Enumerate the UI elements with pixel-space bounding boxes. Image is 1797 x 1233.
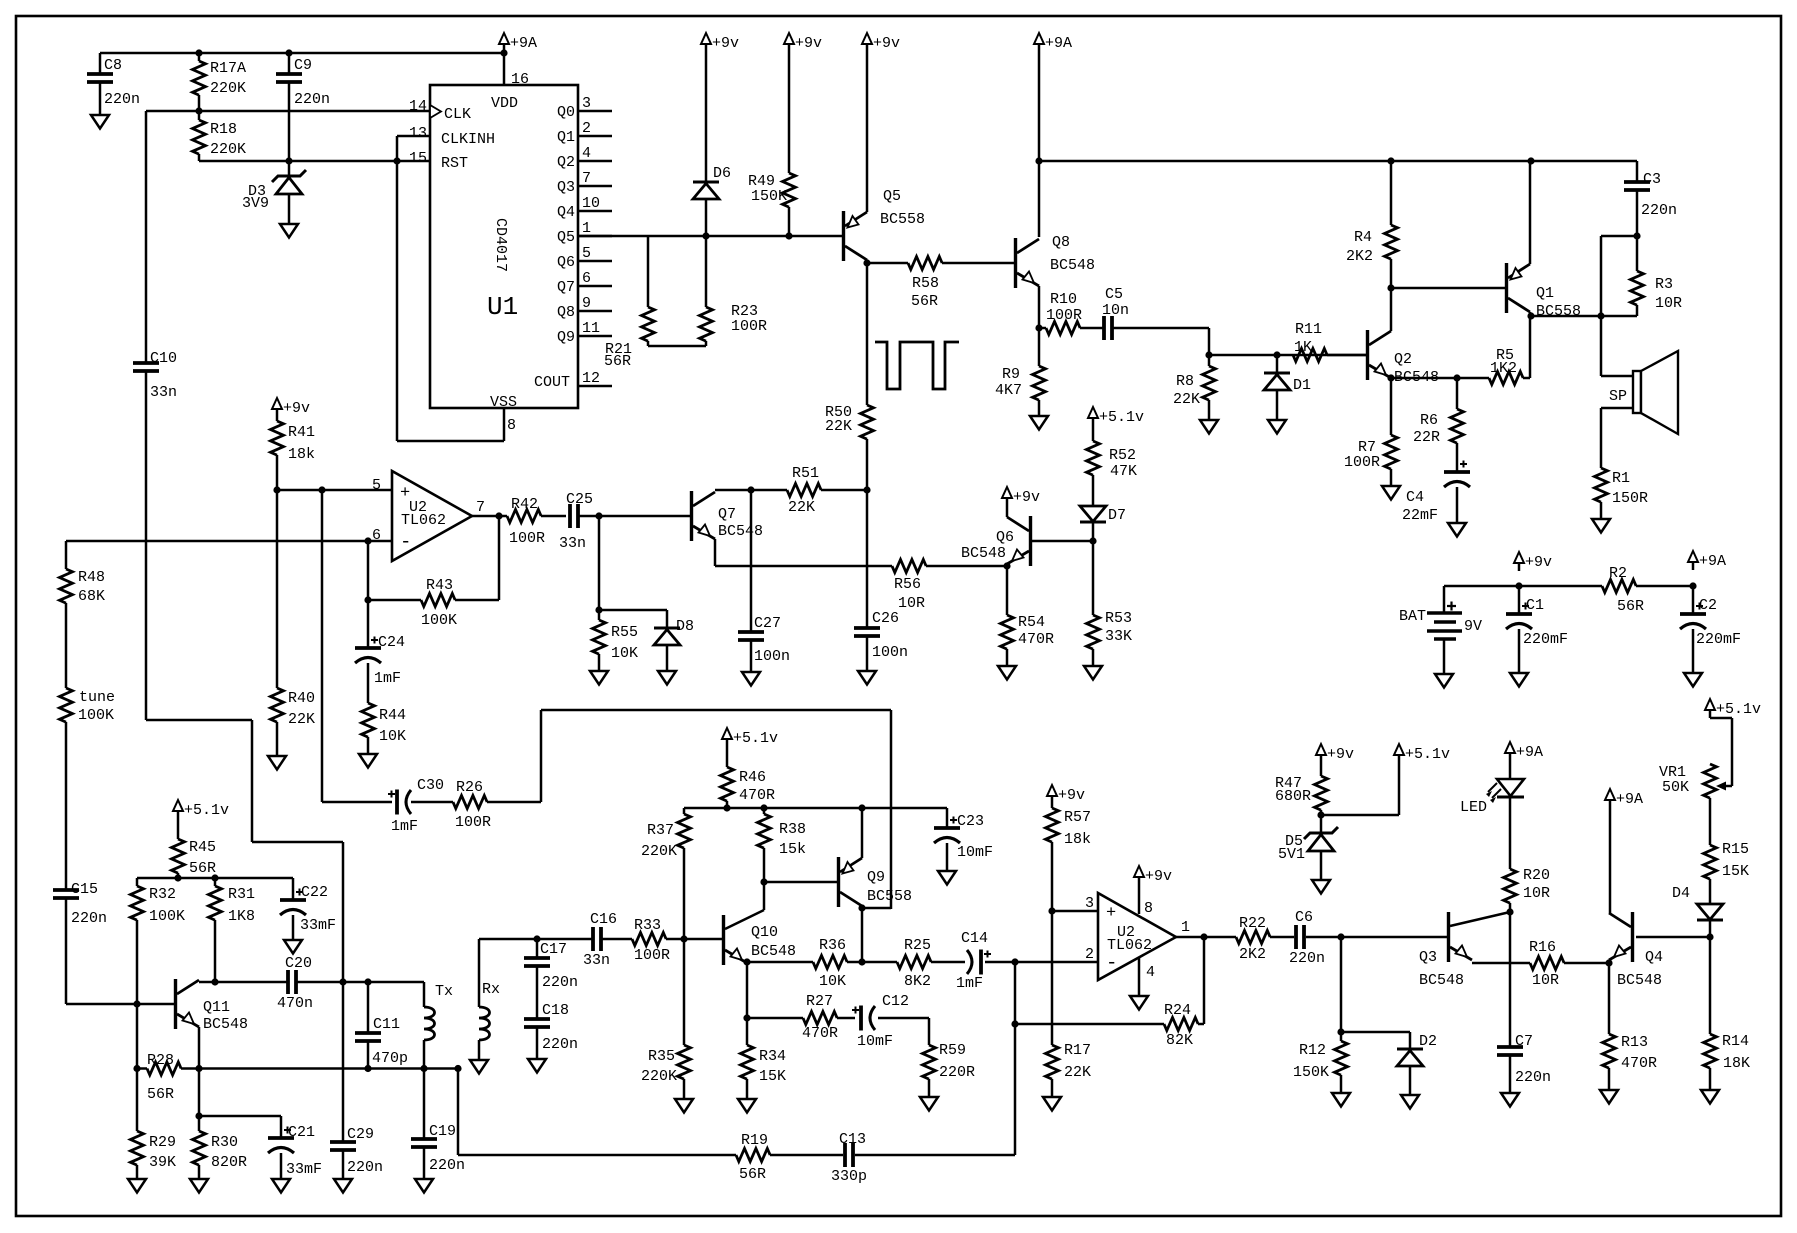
transistor Q10 BC548	[722, 915, 725, 965]
svg-text:R41: R41	[288, 424, 315, 441]
svg-text:22K: 22K	[788, 499, 815, 516]
ground (R12)	[1332, 1093, 1350, 1107]
resistor R15	[1704, 845, 1717, 879]
resistor R50	[866, 263, 869, 405]
capacitor C20	[286, 970, 290, 994]
capacitor C11	[367, 982, 370, 1033]
svg-text:-: -	[1106, 952, 1117, 974]
op-amp U2 second half TL062	[1098, 893, 1176, 980]
svg-text:33n: 33n	[583, 952, 610, 969]
capacitor C8	[99, 53, 102, 74]
svg-text:C14: C14	[961, 930, 988, 947]
svg-text:7: 7	[582, 170, 591, 187]
svg-text:C22: C22	[301, 884, 328, 901]
pin 11 Q9 stub	[578, 335, 612, 338]
wire Q9 base line y=882	[764, 881, 837, 884]
power +9v (C1)	[1514, 552, 1524, 563]
wire Q3 base branch y=1032	[1340, 937, 1343, 1032]
wire op-amp2 output y=937	[1176, 936, 1236, 939]
svg-text:150R: 150R	[1612, 490, 1648, 507]
svg-text:15K: 15K	[759, 1068, 786, 1085]
svg-text:4: 4	[1146, 964, 1155, 981]
wire Q11 base y=1004	[66, 1003, 174, 1006]
speaker SP	[1601, 375, 1633, 378]
capacitor C30 1mF	[395, 790, 399, 815]
svg-text:Q9: Q9	[557, 329, 575, 346]
svg-text:R12: R12	[1299, 1042, 1326, 1059]
svg-text:R3: R3	[1655, 276, 1673, 293]
svg-text:D8: D8	[676, 618, 694, 635]
svg-text:10K: 10K	[379, 728, 406, 745]
svg-text:R43: R43	[426, 577, 453, 594]
power +5.1v (VR1)	[1705, 699, 1715, 710]
resistor R43	[421, 594, 455, 607]
wire Q7 emitter / R56 line y=566	[714, 539, 717, 566]
svg-text:100K: 100K	[421, 612, 457, 629]
diode D8	[666, 610, 669, 628]
power +9v (op-amp pin 8)	[1134, 866, 1144, 877]
svg-text:R38: R38	[779, 821, 806, 838]
svg-text:470R: 470R	[1018, 631, 1054, 648]
ground (R54)	[998, 666, 1016, 680]
svg-text:tune: tune	[79, 689, 115, 706]
power +9A (rail)	[1034, 33, 1044, 44]
wire R27 line y=1018	[747, 1017, 803, 1020]
svg-text:470p: 470p	[372, 1050, 408, 1067]
capacitor C1 220mF	[1518, 586, 1521, 614]
svg-text:R1: R1	[1612, 470, 1630, 487]
resistor R11	[1293, 349, 1327, 362]
resistor R9	[1038, 328, 1041, 366]
wire pin6 line y=541	[66, 540, 392, 543]
svg-text:5V1: 5V1	[1278, 846, 1305, 863]
wire R36 line y=962	[747, 961, 813, 964]
resistor R28	[147, 1062, 181, 1075]
svg-text:Q5: Q5	[557, 229, 575, 246]
ground (C19)	[415, 1179, 433, 1193]
capacitor C17	[536, 939, 539, 958]
svg-text:820R: 820R	[211, 1154, 247, 1171]
wire C21 line y=1116	[199, 1115, 281, 1118]
resistor R51	[787, 484, 821, 497]
svg-text:R30: R30	[211, 1134, 238, 1151]
svg-text:R2: R2	[1609, 565, 1627, 582]
svg-text:C29: C29	[347, 1126, 374, 1143]
svg-text:1mF: 1mF	[956, 975, 983, 992]
svg-text:R13: R13	[1621, 1034, 1648, 1051]
resistor R26	[453, 796, 487, 809]
resistor R29	[131, 1131, 144, 1165]
ground (C8)	[91, 115, 109, 129]
svg-text:C30: C30	[417, 777, 444, 794]
capacitor C12 10mF	[859, 1006, 863, 1031]
resistor R6	[1456, 378, 1459, 409]
wire Q9 collector to loop	[862, 907, 891, 910]
svg-text:Q2: Q2	[557, 154, 575, 171]
wire loop up and across y=710	[540, 710, 543, 802]
svg-text:Q7: Q7	[718, 506, 736, 523]
transistor Q9 BC558	[837, 857, 840, 907]
svg-text:33n: 33n	[150, 384, 177, 401]
capacitor C10	[145, 111, 148, 363]
capacitor C13	[843, 1143, 847, 1167]
svg-text:R54: R54	[1018, 614, 1045, 631]
svg-text:C26: C26	[872, 610, 899, 627]
resistor R32	[136, 878, 139, 886]
svg-text:220n: 220n	[104, 91, 140, 108]
svg-text:22K: 22K	[1064, 1064, 1091, 1081]
wire Q4 base line y=937	[1636, 936, 1710, 939]
svg-text:BC548: BC548	[1419, 972, 1464, 989]
transistor Q7 BC548	[690, 491, 693, 541]
resistor R58	[908, 257, 942, 270]
svg-text:R44: R44	[379, 707, 406, 724]
svg-text:+9v: +9v	[1525, 554, 1552, 571]
svg-text:C1: C1	[1526, 597, 1544, 614]
svg-text:+9A: +9A	[1699, 553, 1726, 570]
resistor R31	[214, 878, 217, 886]
svg-text:100R: 100R	[509, 530, 545, 547]
diode D6	[705, 52, 708, 182]
diode D2	[1397, 1048, 1423, 1051]
svg-text:+9A: +9A	[1045, 35, 1072, 52]
wire Q11 collector line y=982	[199, 981, 288, 984]
svg-text:1mF: 1mF	[374, 670, 401, 687]
svg-text:220n: 220n	[1641, 202, 1677, 219]
svg-text:D2: D2	[1419, 1033, 1437, 1050]
svg-text:Q6: Q6	[996, 529, 1014, 546]
svg-text:6: 6	[372, 527, 381, 544]
svg-text:R20: R20	[1523, 867, 1550, 884]
wire R19/C13 line y=1155	[457, 1069, 460, 1156]
svg-text:R52: R52	[1109, 447, 1136, 464]
svg-text:15: 15	[409, 150, 427, 167]
zener diode D5 5V1	[1320, 815, 1323, 833]
transistor Q1 BC558	[1505, 263, 1508, 313]
svg-text:50K: 50K	[1662, 779, 1689, 796]
resistor R30	[193, 1131, 206, 1165]
svg-text:C20: C20	[285, 955, 312, 972]
svg-text:Q3: Q3	[557, 179, 575, 196]
svg-text:10K: 10K	[819, 973, 846, 990]
resistor R22	[1236, 931, 1270, 944]
svg-text:R25: R25	[904, 937, 931, 954]
wire battery rail y=586	[1444, 585, 1602, 588]
resistor R46	[726, 747, 729, 767]
svg-text:C24: C24	[378, 634, 405, 651]
svg-text:Q7: Q7	[557, 279, 575, 296]
capacitor C24 1mF	[355, 646, 381, 650]
svg-text:R40: R40	[288, 690, 315, 707]
wire op-amp1 output y=516	[472, 515, 507, 518]
svg-text:10: 10	[582, 195, 600, 212]
svg-text:+9v: +9v	[1013, 489, 1040, 506]
svg-text:R42: R42	[511, 496, 538, 513]
ground (C29)	[334, 1179, 352, 1193]
svg-text:R17: R17	[1064, 1042, 1091, 1059]
svg-text:10mF: 10mF	[957, 844, 993, 861]
svg-text:D1: D1	[1293, 377, 1311, 394]
ground (C23)	[938, 871, 956, 885]
capacitor C14 1mF	[979, 950, 983, 975]
svg-text:220mF: 220mF	[1696, 631, 1741, 648]
svg-text:18K: 18K	[1723, 1055, 1750, 1072]
wire R8 line y=355	[1209, 354, 1366, 357]
svg-text:33mF: 33mF	[300, 917, 336, 934]
resistor R42	[507, 510, 541, 523]
wire Q10 base line y=939	[479, 938, 592, 941]
capacitor C7	[1509, 912, 1512, 1047]
power +9v (R57)	[1047, 785, 1057, 796]
capacitor C26	[866, 490, 869, 628]
ground (C18)	[528, 1059, 546, 1073]
svg-text:14: 14	[409, 98, 427, 115]
ground (R13)	[1600, 1090, 1618, 1104]
resistor R47	[1320, 763, 1323, 776]
svg-text:R55: R55	[611, 624, 638, 641]
ground (C1)	[1510, 673, 1528, 687]
svg-text:Q1: Q1	[557, 129, 575, 146]
capacitor C22 33mF	[292, 878, 295, 900]
svg-text:R24: R24	[1164, 1002, 1191, 1019]
svg-text:12: 12	[582, 370, 600, 387]
svg-text:+9A: +9A	[1516, 744, 1543, 761]
svg-text:5: 5	[582, 245, 591, 262]
wire Q1 base y=288	[1391, 287, 1505, 290]
resistor R24	[1164, 1018, 1198, 1031]
resistor R53	[1092, 541, 1095, 615]
svg-text:1mF: 1mF	[391, 818, 418, 835]
svg-text:D6: D6	[713, 165, 731, 182]
svg-text:C2: C2	[1699, 597, 1717, 614]
svg-text:C27: C27	[754, 615, 781, 632]
svg-text:47K: 47K	[1110, 463, 1137, 480]
svg-text:R33: R33	[634, 917, 661, 934]
power +9v (Q6)	[1002, 487, 1012, 498]
svg-text:R17A: R17A	[210, 60, 246, 77]
svg-text:100R: 100R	[455, 814, 491, 831]
svg-text:10R: 10R	[1532, 972, 1559, 989]
svg-text:COUT: COUT	[534, 374, 570, 391]
ground (R53)	[1084, 666, 1102, 680]
svg-text:R11: R11	[1295, 321, 1322, 338]
resistor R48	[65, 541, 68, 569]
resistor R54	[1006, 566, 1009, 615]
svg-text:82K: 82K	[1166, 1032, 1193, 1049]
svg-text:C12: C12	[882, 993, 909, 1010]
svg-text:CLKINH: CLKINH	[441, 131, 495, 148]
svg-text:56R: 56R	[911, 293, 938, 310]
svg-text:220n: 220n	[429, 1157, 465, 1174]
resistor R36	[813, 956, 847, 969]
potentiometer VR1 body	[1704, 764, 1717, 798]
svg-text:C8: C8	[104, 57, 122, 74]
svg-text:100K: 100K	[78, 707, 114, 724]
svg-text:BAT: BAT	[1399, 608, 1426, 625]
svg-text:C11: C11	[373, 1016, 400, 1033]
pin 12 COUT stub	[578, 385, 612, 388]
svg-text:C25: C25	[566, 491, 593, 508]
power +5.1v (R46)	[722, 728, 732, 739]
wire pin3 line y=911	[1052, 910, 1098, 913]
svg-text:4K7: 4K7	[995, 382, 1022, 399]
diode D7	[1080, 506, 1106, 522]
wire Q7 collector / R51 line y=490	[715, 489, 787, 492]
svg-text:R15: R15	[1722, 841, 1749, 858]
svg-text:R57: R57	[1064, 809, 1091, 826]
svg-text:BC548: BC548	[718, 523, 763, 540]
svg-text:220n: 220n	[347, 1159, 383, 1176]
svg-text:BC558: BC558	[867, 888, 912, 905]
svg-text:CD4017: CD4017	[492, 218, 509, 272]
wire D8 line y=610	[599, 609, 667, 612]
resistor R52	[1092, 426, 1095, 441]
svg-text:2K2: 2K2	[1346, 248, 1373, 265]
resistor R34	[746, 1018, 749, 1045]
svg-text:Q4: Q4	[557, 204, 575, 221]
svg-text:R16: R16	[1529, 939, 1556, 956]
svg-text:R4: R4	[1354, 229, 1372, 246]
svg-text:C17: C17	[540, 941, 567, 958]
ground (R8)	[1200, 420, 1218, 434]
power +9A (LED)	[1505, 742, 1515, 753]
diode D4	[1697, 904, 1723, 920]
capacitor C15	[53, 888, 79, 892]
resistor R14	[1709, 937, 1712, 1034]
ground (R44)	[359, 754, 377, 768]
resistor R35	[678, 1045, 691, 1079]
svg-text:C5: C5	[1105, 286, 1123, 303]
resistor R4	[1390, 161, 1393, 225]
svg-text:+5.1v: +5.1v	[184, 802, 229, 819]
wire C25 junction down to R55/D8	[598, 516, 601, 610]
svg-text:10n: 10n	[1102, 302, 1129, 319]
ground (R17)	[1043, 1097, 1061, 1111]
transistor Q11 BC548	[174, 979, 177, 1029]
resistor R41	[276, 417, 279, 421]
pin 3 Q0 stub	[578, 110, 612, 113]
svg-text:R58: R58	[912, 275, 939, 292]
svg-text:56R: 56R	[1617, 598, 1644, 615]
resistor R59	[923, 1045, 936, 1079]
svg-text:33mF: 33mF	[286, 1161, 322, 1178]
wire RST line y=161	[199, 160, 430, 163]
power +9v (R49)	[784, 33, 794, 44]
svg-text:470R: 470R	[1621, 1055, 1657, 1072]
resistor R1	[1595, 468, 1608, 502]
svg-text:150K: 150K	[751, 188, 787, 205]
svg-text:R48: R48	[78, 569, 105, 586]
pin 16 VDD stub	[503, 53, 506, 85]
ground (Rx)	[470, 1060, 488, 1074]
svg-text:3: 3	[582, 95, 591, 112]
svg-text:4: 4	[582, 145, 591, 162]
svg-text:R34: R34	[759, 1048, 786, 1065]
power +9v (R41)	[272, 398, 282, 409]
ground (D5)	[1312, 880, 1330, 894]
inductor Tx	[423, 982, 426, 1007]
svg-text:R10: R10	[1050, 291, 1077, 308]
ground (R29)	[128, 1179, 146, 1193]
svg-text:Tx: Tx	[435, 983, 453, 1000]
svg-text:TL062: TL062	[401, 512, 446, 529]
svg-text:+5.1v: +5.1v	[1099, 409, 1144, 426]
svg-text:C16: C16	[590, 911, 617, 928]
svg-text:220n: 220n	[1515, 1069, 1551, 1086]
svg-text:220n: 220n	[542, 974, 578, 991]
svg-text:R56: R56	[894, 576, 921, 593]
svg-text:100R: 100R	[731, 318, 767, 335]
resistor R44	[362, 703, 375, 737]
resistor R19	[736, 1149, 770, 1162]
resistor R27	[803, 1012, 837, 1025]
ground (R35)	[675, 1099, 693, 1113]
svg-text:-: -	[400, 531, 411, 553]
power +5.1v (R52)	[1088, 407, 1098, 418]
wire Q5-pin1 net y=236	[578, 235, 648, 238]
resistor R33	[632, 933, 666, 946]
wire CLKINH/VSS loop	[397, 135, 430, 138]
svg-text:11: 11	[582, 320, 600, 337]
power +9v (R47)	[1316, 744, 1326, 755]
svg-text:22R: 22R	[1413, 429, 1440, 446]
svg-text:470R: 470R	[739, 787, 775, 804]
svg-text:BC548: BC548	[1050, 257, 1095, 274]
wire R10 line y=328	[1035, 324, 1042, 331]
transistor Q8 BC548	[1014, 238, 1017, 288]
svg-text:1K8: 1K8	[228, 908, 255, 925]
capacitor C4 22mF	[1444, 470, 1470, 474]
svg-text:10R: 10R	[1655, 295, 1682, 312]
capacitor C6	[1294, 925, 1298, 949]
svg-text:R46: R46	[739, 769, 766, 786]
wire R43 feedback y=600	[367, 541, 370, 648]
svg-text:RST: RST	[441, 155, 468, 172]
svg-text:+9v: +9v	[873, 35, 900, 52]
resistor R17	[1051, 911, 1054, 1045]
svg-text:3V9: 3V9	[242, 195, 269, 212]
ground (R40)	[268, 756, 286, 770]
transistor Q3 BC548	[1447, 912, 1450, 962]
svg-text:220n: 220n	[71, 910, 107, 927]
svg-text:VDD: VDD	[491, 95, 518, 112]
inductor Rx	[478, 939, 481, 1007]
svg-text:10mF: 10mF	[857, 1033, 893, 1050]
svg-text:220K: 220K	[641, 843, 677, 860]
svg-text:13: 13	[409, 125, 427, 142]
svg-text:220K: 220K	[210, 80, 246, 97]
power +5.1v (R45)	[173, 800, 183, 811]
svg-text:U1: U1	[487, 292, 518, 322]
resistor R21	[642, 307, 655, 341]
svg-text:22K: 22K	[825, 418, 852, 435]
svg-text:5: 5	[372, 477, 381, 494]
pin 7 Q3 stub	[578, 185, 612, 188]
ground (C2)	[1684, 673, 1702, 687]
resistor R13	[1608, 963, 1611, 1034]
svg-text:Q2: Q2	[1394, 351, 1412, 368]
svg-text:C9: C9	[294, 57, 312, 74]
svg-text:C4: C4	[1406, 489, 1424, 506]
wire pin5 branch down to C30	[321, 490, 324, 802]
pin 6 Q7 stub	[578, 285, 612, 288]
wire +9A rail y=161	[1039, 160, 1637, 163]
capacitor C25	[568, 504, 572, 528]
svg-text:220n: 220n	[542, 1036, 578, 1053]
power +9A (C2)	[1688, 551, 1698, 562]
resistor R7	[1385, 435, 1398, 469]
pin 9 Q8 stub	[578, 310, 612, 313]
